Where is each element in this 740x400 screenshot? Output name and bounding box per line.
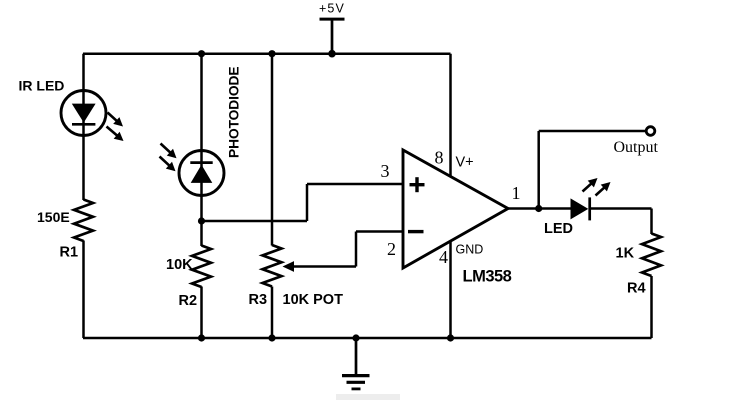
+5V supply symbol xyxy=(319,2,345,55)
wire output tap vertical xyxy=(537,131,540,209)
svg-text:1: 1 xyxy=(512,183,521,203)
resistor R1 xyxy=(74,200,93,242)
wire pot wiper to inverting input pin 2 xyxy=(283,232,404,272)
junction dot photodiode top rail xyxy=(198,50,205,57)
junction dot photodiode / R2 node xyxy=(198,217,205,224)
svg-text:IR LED: IR LED xyxy=(19,78,65,94)
IR LED D1 xyxy=(61,91,124,142)
wire top rail xyxy=(83,52,451,55)
wire R4 to bottom rail xyxy=(650,276,653,338)
output terminal circle xyxy=(646,127,655,136)
svg-text:8: 8 xyxy=(435,148,444,168)
op-amp plus input symbol xyxy=(410,177,425,192)
resistor R4 xyxy=(642,234,661,277)
watermark remnant band xyxy=(336,394,400,400)
wire R3 to bottom rail xyxy=(271,287,274,339)
svg-text:150E: 150E xyxy=(37,209,70,225)
svg-text:2: 2 xyxy=(387,239,396,259)
svg-text:10K POT: 10K POT xyxy=(283,292,344,308)
svg-text:R4: R4 xyxy=(627,281,646,297)
svg-text:PHOTODIODE: PHOTODIODE xyxy=(227,66,242,158)
ground symbol xyxy=(342,334,370,389)
wire R2 stub xyxy=(200,221,203,246)
wire photodiode branch vertical xyxy=(200,54,203,221)
wire bottom rail xyxy=(83,337,652,340)
svg-text:+5V: +5V xyxy=(319,2,345,16)
svg-text:3: 3 xyxy=(381,161,390,181)
junction dot R3 bottom rail xyxy=(268,334,275,341)
wire V+ pin 8 vertical xyxy=(449,54,452,177)
wire R3 top vertical xyxy=(271,54,274,246)
svg-text:V+: V+ xyxy=(456,155,474,171)
junction dot pin4 bottom rail xyxy=(447,334,454,341)
svg-text:R2: R2 xyxy=(179,293,198,309)
op-amp U1 LM358 triangle xyxy=(403,150,508,268)
junction dot output node xyxy=(535,205,542,212)
svg-text:R3: R3 xyxy=(249,292,268,308)
wire left branch vertical (IR LED / R1) xyxy=(82,54,85,200)
wire R2 to bottom rail xyxy=(200,287,203,339)
LED D3 xyxy=(571,178,611,220)
op-amp minus input symbol xyxy=(408,230,424,233)
wire op-amp output pin 1 xyxy=(508,207,571,210)
wire output tap horizontal xyxy=(539,130,647,133)
svg-text:R1: R1 xyxy=(60,245,79,261)
svg-text:LED: LED xyxy=(544,221,573,237)
svg-text:10K: 10K xyxy=(166,257,193,273)
wire GND pin 4 vertical xyxy=(449,241,452,339)
svg-text:GND: GND xyxy=(456,243,484,257)
wire R4 top stub xyxy=(650,209,653,235)
junction dot R2 bottom rail xyxy=(198,334,205,341)
svg-text:LM358: LM358 xyxy=(463,268,512,286)
wire LED to R4 xyxy=(590,207,652,210)
junction dot +5V top rail xyxy=(328,50,336,58)
resistor R3 potentiometer xyxy=(263,245,282,287)
wire R1 to bottom rail xyxy=(82,241,85,339)
wire photodiode node to non-inverting input pin 3 xyxy=(202,184,404,221)
svg-text:4: 4 xyxy=(439,247,448,267)
svg-text:Output: Output xyxy=(614,139,659,156)
photodiode D2 xyxy=(160,144,225,196)
svg-text:1K: 1K xyxy=(616,246,635,262)
junction dot R3 top rail xyxy=(268,50,275,57)
resistor R2 xyxy=(192,246,211,288)
